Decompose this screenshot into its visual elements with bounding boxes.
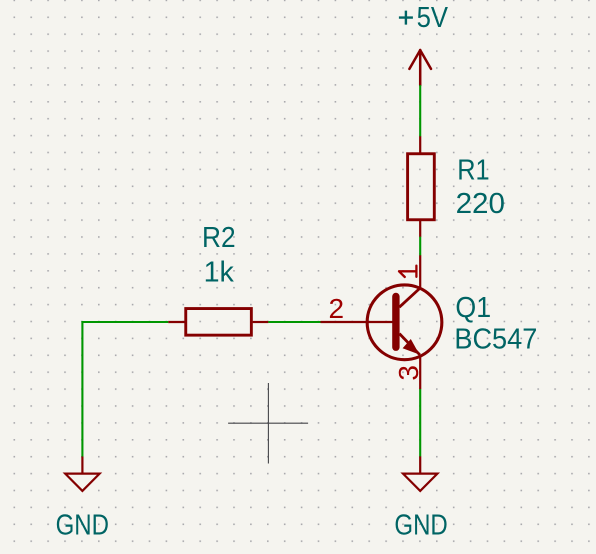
Q1 base pin 2: [321, 321, 393, 323]
pin number 1: [399, 266, 416, 277]
ground symbol left: [65, 457, 99, 491]
svg-text:BC547: BC547: [454, 324, 537, 356]
power symbol +5V: [409, 50, 431, 85]
Q1 emitter arrowhead: [403, 339, 420, 355]
svg-text:R1: R1: [457, 155, 489, 187]
svg-text:R2: R2: [202, 222, 236, 254]
svg-text:GND: GND: [56, 510, 109, 542]
wire +5V to R1: [419, 85, 421, 136]
Q1 collector pin 1: [419, 255, 421, 288]
wire R2 to Q1 base: [268, 321, 320, 323]
Q1 base bar: [392, 297, 399, 348]
+5V net label: [399, 2, 449, 34]
cursor crosshair: [228, 383, 308, 464]
resistor R1: [408, 136, 435, 237]
svg-text:3: 3: [393, 365, 424, 381]
svg-text:2: 2: [329, 293, 345, 324]
svg-text:5V: 5V: [417, 2, 449, 34]
Q1 emitter pin 3: [399, 334, 419, 355]
svg-text:Q1: Q1: [455, 292, 491, 324]
svg-text:1k: 1k: [204, 256, 235, 288]
wire R2 left to ground (corner): [82, 322, 168, 457]
wire R1 to Q1 collector: [419, 237, 421, 256]
Q1 body circle: [367, 285, 442, 360]
resistor R2: [168, 309, 268, 336]
transistor Q1: [321, 255, 442, 389]
ground symbol right: [403, 456, 437, 491]
svg-text:220: 220: [456, 188, 505, 220]
svg-text:GND: GND: [394, 510, 447, 542]
wire Q1 emitter to ground: [419, 389, 421, 457]
